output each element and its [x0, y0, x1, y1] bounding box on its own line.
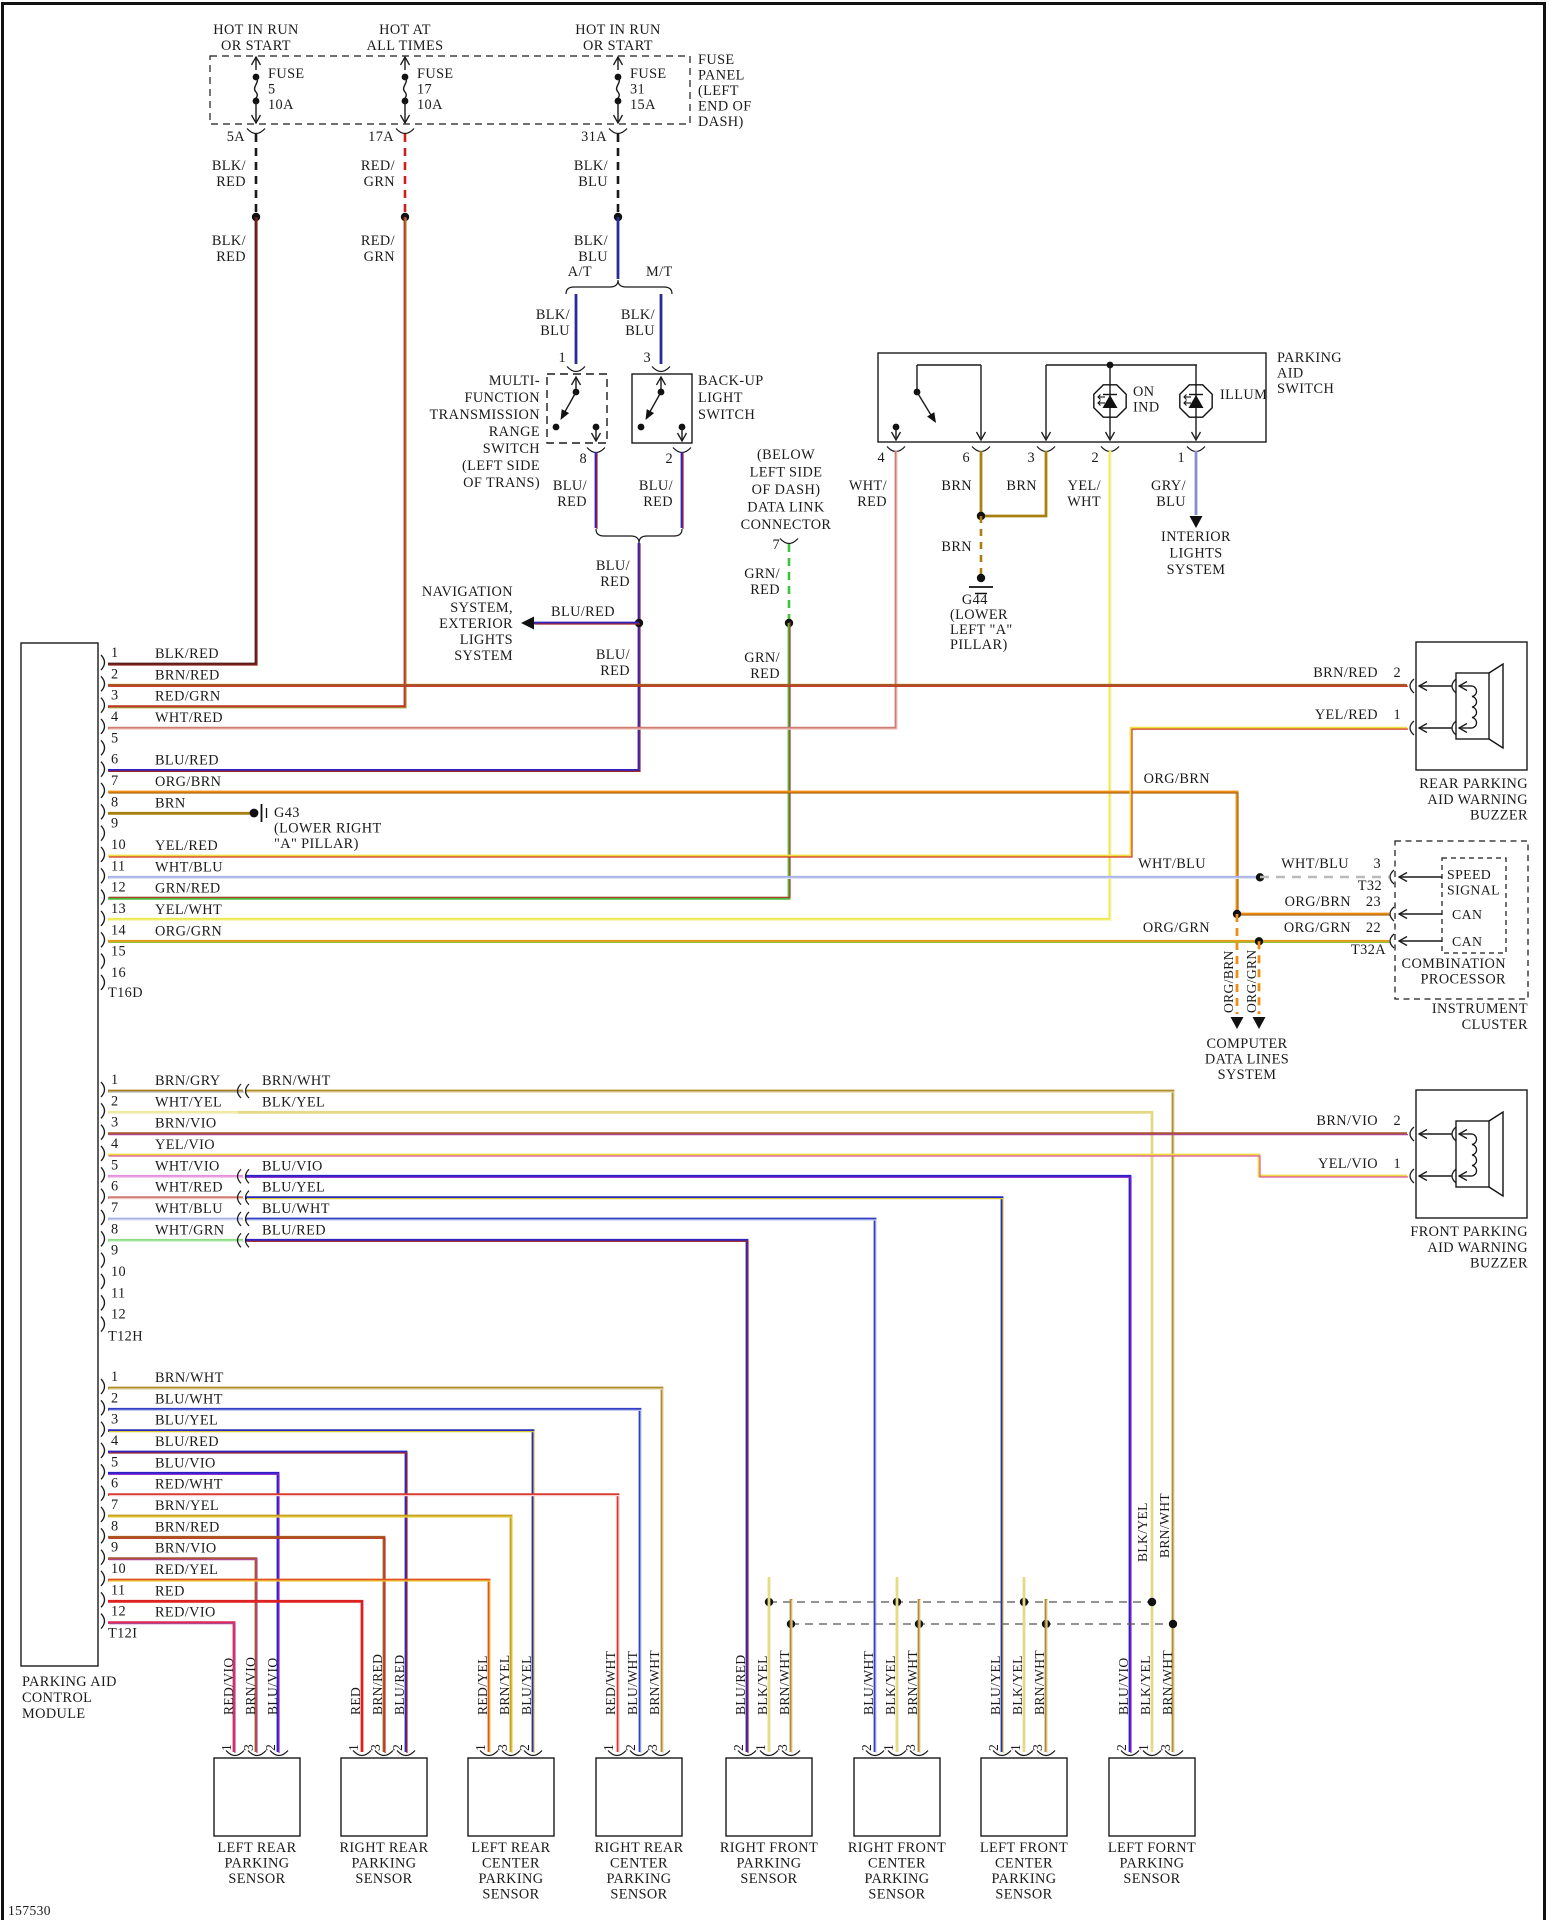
- pin 3 left rear center (BRN/YEL): [502, 1751, 520, 1756]
- pin 3 left fornt parking (BRN/WHT): [1165, 1751, 1183, 1756]
- svg-text:BLU: BLU: [578, 249, 608, 265]
- wire ORG/GRN dashed to computer data lines: [1258, 941, 1261, 1014]
- svg-text:SWITCH: SWITCH: [698, 407, 755, 423]
- pin 4 T12H: [101, 1146, 105, 1161]
- wire BRN/WHT bus drop at x=1046: [1045, 1599, 1048, 1752]
- svg-text:(BELOW: (BELOW: [757, 447, 815, 463]
- junction node GRN/RED: [785, 619, 793, 627]
- svg-text:BLK/YEL: BLK/YEL: [1138, 1655, 1153, 1715]
- svg-text:ORG/GRN: ORG/GRN: [1143, 920, 1210, 936]
- wire BRN/WHT bus drop at x=791: [790, 1599, 793, 1752]
- svg-text:YEL/VIO: YEL/VIO: [1318, 1156, 1378, 1172]
- svg-text:YEL/RED: YEL/RED: [155, 838, 218, 854]
- svg-text:BRN/YEL: BRN/YEL: [497, 1654, 512, 1715]
- svg-text:HOT IN RUN: HOT IN RUN: [575, 22, 661, 38]
- svg-text:ILLUM: ILLUM: [1220, 387, 1267, 403]
- svg-text:1: 1: [219, 1744, 234, 1751]
- fuse 31 15A: [614, 57, 667, 123]
- pin 2 left rear parking (BLU/VIO): [270, 1751, 288, 1756]
- left rear parking sensor box: [214, 1758, 300, 1836]
- svg-text:WHT/BLU: WHT/BLU: [155, 1201, 223, 1217]
- svg-text:BLK/YEL: BLK/YEL: [755, 1655, 770, 1715]
- svg-text:SWITCH: SWITCH: [483, 441, 540, 457]
- svg-text:WHT/GRN: WHT/GRN: [155, 1222, 225, 1238]
- svg-text:OF DASH): OF DASH): [752, 482, 821, 498]
- svg-text:2: 2: [731, 1744, 746, 1751]
- svg-text:10A: 10A: [417, 97, 443, 113]
- svg-text:INSTRUMENT: INSTRUMENT: [1432, 1001, 1528, 1017]
- svg-text:LEFT "A": LEFT "A": [950, 622, 1013, 638]
- svg-text:RED: RED: [348, 1687, 363, 1715]
- svg-text:6: 6: [111, 752, 119, 768]
- pin 1 left rear parking (RED/VIO): [226, 1751, 244, 1756]
- pin 6 T12I: [101, 1486, 105, 1501]
- svg-text:RIGHT FRONT: RIGHT FRONT: [848, 1840, 946, 1856]
- wire WHT/BLU dashed to instrument cluster pin3: [1260, 876, 1389, 878]
- svg-text:SYSTEM,: SYSTEM,: [450, 600, 513, 616]
- svg-text:BLU/WHT: BLU/WHT: [262, 1201, 330, 1217]
- svg-text:RIGHT REAR: RIGHT REAR: [594, 1840, 683, 1856]
- svg-text:4: 4: [111, 1136, 119, 1152]
- pin 4 T12I: [101, 1443, 105, 1458]
- wire BLK/YEL bus drop at x=769: [768, 1577, 771, 1752]
- svg-text:BLU/VIO: BLU/VIO: [1116, 1657, 1131, 1715]
- svg-text:10: 10: [111, 1264, 126, 1280]
- fuse 17 10A: [401, 57, 454, 123]
- wire RED/YEL T12I pin10 to sensor: [108, 1580, 489, 1752]
- svg-text:SENSOR: SENSOR: [610, 1887, 667, 1903]
- svg-text:3: 3: [1373, 856, 1381, 872]
- pin 16 T16D: [101, 975, 105, 990]
- wire BLU/WHT T12I pin2 to sensor: [108, 1409, 640, 1752]
- svg-text:CLUSTER: CLUSTER: [1462, 1017, 1528, 1033]
- svg-text:BLK/: BLK/: [574, 158, 608, 174]
- left rear center parking sensor box: [468, 1758, 554, 1836]
- wire BLK/BLU M/T branch: [660, 294, 663, 364]
- svg-text:(LEFT SIDE: (LEFT SIDE: [462, 458, 540, 474]
- svg-text:BRN/WHT: BRN/WHT: [647, 1650, 662, 1715]
- svg-text:MODULE: MODULE: [22, 1706, 86, 1722]
- svg-text:BRN/RED: BRN/RED: [370, 1654, 385, 1715]
- wire BLU/RED merged down to junction: [108, 543, 639, 770]
- svg-text:7: 7: [111, 1497, 119, 1513]
- svg-text:BLU/WHT: BLU/WHT: [625, 1650, 640, 1715]
- wire GRN/RED dashed from data link: [788, 544, 791, 622]
- svg-text:PARKING: PARKING: [864, 1871, 929, 1887]
- svg-text:LIGHTS: LIGHTS: [1169, 546, 1222, 562]
- svg-text:LEFT FRONT: LEFT FRONT: [980, 1840, 1068, 1856]
- pin 1 right rear center (RED/WHT): [608, 1751, 626, 1756]
- svg-text:GRN/RED: GRN/RED: [155, 881, 221, 897]
- svg-text:15: 15: [111, 944, 126, 960]
- pin 1 T12H: [101, 1082, 105, 1097]
- junction node ORG/BRN: [1233, 910, 1241, 918]
- parking aid control module box: [21, 643, 98, 1666]
- svg-text:9: 9: [111, 816, 119, 832]
- svg-text:RIGHT FRONT: RIGHT FRONT: [720, 1840, 818, 1856]
- svg-text:23: 23: [1366, 894, 1381, 910]
- svg-text:DATA LINK: DATA LINK: [747, 500, 825, 516]
- svg-text:BRN: BRN: [155, 795, 186, 811]
- svg-text:BLK/YEL: BLK/YEL: [262, 1094, 325, 1110]
- pin 8 T12I: [101, 1528, 105, 1543]
- svg-text:SENSOR: SENSOR: [482, 1887, 539, 1903]
- svg-text:BLK/: BLK/: [536, 307, 570, 323]
- svg-text:9: 9: [111, 1540, 119, 1556]
- wire WHT/GRN-BLU/RED T12H pin8 to right front sensor: [108, 1239, 243, 1242]
- wire BLU/RED T12I pin4 to sensor: [108, 1452, 406, 1752]
- wire BLU/RED from pin 8: [595, 452, 598, 528]
- svg-text:RED/: RED/: [361, 233, 395, 249]
- svg-text:16: 16: [111, 965, 126, 981]
- wire BRN dashed to ground G44: [980, 516, 983, 574]
- svg-text:8: 8: [579, 451, 587, 467]
- svg-text:CENTER: CENTER: [482, 1856, 540, 1872]
- svg-text:RED: RED: [557, 494, 587, 510]
- svg-text:5: 5: [111, 1454, 119, 1470]
- svg-text:2: 2: [1091, 450, 1099, 466]
- pin 2 left front center (BLU/YEL): [993, 1751, 1011, 1756]
- svg-text:M/T: M/T: [646, 264, 673, 280]
- wire RED/GRN fuse17 to T16D pin3: [108, 217, 405, 707]
- svg-text:BLU/: BLU/: [639, 478, 673, 494]
- svg-text:CONNECTOR: CONNECTOR: [741, 517, 832, 533]
- svg-text:BRN/WHT: BRN/WHT: [1160, 1650, 1175, 1715]
- svg-text:BRN/WHT: BRN/WHT: [155, 1370, 224, 1386]
- svg-text:7: 7: [111, 1200, 119, 1216]
- svg-text:WHT/YEL: WHT/YEL: [155, 1094, 222, 1110]
- svg-text:ORG/BRN: ORG/BRN: [1285, 894, 1351, 910]
- pin 8 T12H: [101, 1231, 105, 1246]
- svg-text:BLU/WHT: BLU/WHT: [861, 1650, 876, 1715]
- svg-text:DATA LINES: DATA LINES: [1205, 1052, 1289, 1068]
- svg-text:SYSTEM: SYSTEM: [454, 648, 513, 664]
- svg-text:ORG/GRN: ORG/GRN: [1244, 949, 1259, 1013]
- svg-text:INTERIOR: INTERIOR: [1161, 529, 1231, 545]
- svg-text:BLK/YEL: BLK/YEL: [1135, 1502, 1150, 1562]
- pin 6 T12H: [101, 1189, 105, 1204]
- svg-text:(LOWER RIGHT: (LOWER RIGHT: [274, 821, 382, 837]
- svg-text:ORG/BRN: ORG/BRN: [155, 774, 221, 790]
- svg-text:BLU/YEL: BLU/YEL: [988, 1655, 1003, 1715]
- svg-text:PARKING: PARKING: [478, 1871, 543, 1887]
- svg-text:BLU: BLU: [1156, 494, 1186, 510]
- svg-text:SIGNAL: SIGNAL: [1447, 883, 1500, 898]
- CAN input pin22: [1390, 934, 1394, 948]
- svg-text:14: 14: [111, 922, 126, 938]
- wire BRN/RED T16D pin2 to rear buzzer pin2: [108, 684, 1407, 687]
- pin 10 T16D: [101, 847, 105, 862]
- svg-text:BRN/WHT: BRN/WHT: [777, 1650, 792, 1715]
- svg-text:BRN/WHT: BRN/WHT: [905, 1650, 920, 1715]
- right front parking sensor box: [726, 1758, 812, 1836]
- svg-text:(LOWER: (LOWER: [950, 607, 1008, 623]
- svg-text:WHT/BLU: WHT/BLU: [1138, 856, 1206, 872]
- wire RED/WHT T12I pin6 to sensor: [108, 1495, 618, 1752]
- svg-text:2: 2: [665, 451, 673, 467]
- svg-text:BUZZER: BUZZER: [1470, 808, 1528, 824]
- pin 2 right front parking (BLU/RED): [738, 1751, 756, 1756]
- svg-text:ALL TIMES: ALL TIMES: [366, 38, 443, 54]
- pin 3 right rear center (BRN/WHT): [652, 1751, 670, 1756]
- svg-text:10: 10: [111, 837, 126, 853]
- wire BRN/RED T12I pin8 to sensor: [108, 1537, 384, 1752]
- svg-text:RED: RED: [857, 494, 887, 510]
- svg-text:WHT: WHT: [1067, 494, 1101, 510]
- svg-text:LEFT REAR: LEFT REAR: [217, 1840, 296, 1856]
- svg-text:RED/: RED/: [361, 158, 395, 174]
- svg-text:BLU/YEL: BLU/YEL: [155, 1413, 218, 1429]
- svg-text:2: 2: [111, 1390, 119, 1406]
- svg-text:1: 1: [111, 1369, 119, 1385]
- svg-text:BLU/: BLU/: [596, 558, 630, 574]
- svg-text:AID WARNING: AID WARNING: [1427, 792, 1528, 808]
- svg-text:BLK/YEL: BLK/YEL: [1010, 1655, 1025, 1715]
- pin 14 T16D: [101, 932, 105, 947]
- svg-text:BRN: BRN: [1006, 478, 1037, 494]
- svg-text:2: 2: [111, 666, 119, 682]
- svg-text:7: 7: [111, 773, 119, 789]
- multi-function transmission range switch: [547, 374, 607, 443]
- svg-text:SENSOR: SENSOR: [355, 1871, 412, 1887]
- pin 3 right front center (BRN/WHT): [910, 1751, 928, 1756]
- ground G43: [250, 804, 267, 822]
- A/T M/T split brace: [566, 280, 672, 294]
- left fornt parking sensor box: [1109, 1758, 1195, 1836]
- pin 1 T16D: [101, 655, 105, 670]
- svg-text:BLK/: BLK/: [212, 233, 246, 249]
- pin 3 left rear parking (BRN/VIO): [248, 1751, 266, 1756]
- wire BLU/YEL T12I pin3 to sensor: [108, 1431, 533, 1752]
- svg-text:WHT/RED: WHT/RED: [155, 1180, 223, 1196]
- wire BRN T16D pin8 to ground G43: [108, 812, 250, 815]
- pin 2 T12I: [101, 1400, 105, 1415]
- svg-text:WHT/RED: WHT/RED: [155, 710, 223, 726]
- speed signal input pin3 T32: [1390, 870, 1394, 884]
- svg-text:BACK-UP: BACK-UP: [698, 373, 764, 389]
- svg-text:RED: RED: [750, 582, 780, 598]
- svg-text:T12H: T12H: [108, 1329, 143, 1345]
- svg-text:BLU/RED: BLU/RED: [733, 1654, 748, 1715]
- pin 1 left fornt parking (BLK/YEL): [1143, 1751, 1161, 1756]
- wire BLU/RED from pin 2: [681, 452, 684, 528]
- svg-text:PARKING: PARKING: [991, 1871, 1056, 1887]
- svg-text:12: 12: [111, 1604, 126, 1620]
- svg-text:WHT/: WHT/: [849, 478, 887, 494]
- svg-text:RED/VIO: RED/VIO: [221, 1657, 236, 1715]
- svg-text:NAVIGATION: NAVIGATION: [422, 584, 513, 600]
- svg-text:BLU/RED: BLU/RED: [155, 1434, 219, 1450]
- wire ORG/BRN dashed to computer data lines: [1236, 914, 1239, 1014]
- LED ON IND indicator: [1094, 365, 1126, 440]
- wire BRN/VIO T12H pin3 to front buzzer pin2: [108, 1132, 1407, 1135]
- svg-text:PARKING: PARKING: [351, 1856, 416, 1872]
- svg-text:BLU/RED: BLU/RED: [392, 1654, 407, 1715]
- back-up light switch: [632, 374, 692, 443]
- pin 6 T16D: [101, 762, 105, 777]
- pin 2 T16D: [101, 676, 105, 691]
- pin 3 left front center (BRN/WHT): [1037, 1751, 1055, 1756]
- svg-text:PARKING AID: PARKING AID: [22, 1674, 117, 1690]
- svg-text:3: 3: [111, 688, 119, 704]
- svg-text:TRANSMISSION: TRANSMISSION: [430, 407, 540, 423]
- svg-text:T32: T32: [1358, 878, 1382, 894]
- wire BRN/GRY-BRN/WHT T12H pin1 to BRN/WHT bus: [108, 1090, 243, 1093]
- wire YEL/WHT switch pin2 to T16D pin13: [108, 451, 1110, 919]
- right rear parking sensor box: [341, 1758, 427, 1836]
- pin 11 T16D: [101, 868, 105, 883]
- svg-text:9: 9: [111, 1243, 119, 1259]
- wire GRN/RED down to T16D pin12: [108, 623, 789, 898]
- wire BLK/BLU fuse31 down to A/T-M/T split: [617, 217, 620, 279]
- splice node ORG/GRN: [1255, 937, 1263, 945]
- wire BRN switch pin6 to splice: [980, 451, 983, 515]
- svg-text:LEFT FORNT: LEFT FORNT: [1108, 1840, 1196, 1856]
- svg-text:3: 3: [1030, 1744, 1045, 1751]
- wire BLK/RED fuse5 to T16D pin1: [108, 217, 256, 664]
- svg-text:HOT AT: HOT AT: [379, 22, 431, 38]
- svg-text:3: 3: [1027, 450, 1035, 466]
- pin 2 right front center (BLU/WHT): [866, 1751, 884, 1756]
- svg-text:FUSE: FUSE: [630, 66, 667, 82]
- pin 10 T12I: [101, 1571, 105, 1586]
- svg-text:BLU/RED: BLU/RED: [551, 604, 615, 620]
- svg-text:REAR PARKING: REAR PARKING: [1419, 776, 1528, 792]
- wire WHT/RED switch pin4 to T16D pin4: [108, 451, 896, 728]
- svg-text:FUNCTION: FUNCTION: [465, 390, 540, 406]
- svg-text:END OF: END OF: [698, 99, 752, 115]
- svg-text:2: 2: [263, 1744, 278, 1751]
- wire BLK/YEL bus drop at x=1024: [1023, 1577, 1026, 1752]
- svg-text:BRN/YEL: BRN/YEL: [155, 1498, 219, 1514]
- pin 13 T16D: [101, 911, 105, 926]
- parking aid switch box: [878, 353, 1266, 442]
- splice node on BLK/RED feed: [252, 213, 260, 221]
- svg-text:YEL/WHT: YEL/WHT: [155, 902, 222, 918]
- svg-text:BRN: BRN: [941, 478, 972, 494]
- svg-text:PARKING: PARKING: [606, 1871, 671, 1887]
- svg-text:8: 8: [111, 794, 119, 810]
- svg-text:SYSTEM: SYSTEM: [1167, 562, 1226, 578]
- svg-text:SENSOR: SENSOR: [1123, 1871, 1180, 1887]
- svg-text:2: 2: [111, 1093, 119, 1109]
- svg-text:1: 1: [1136, 1744, 1151, 1751]
- svg-text:RED/VIO: RED/VIO: [155, 1605, 216, 1621]
- svg-text:17A: 17A: [368, 129, 394, 145]
- wire BRN switch pin3 to splice: [981, 451, 1046, 516]
- svg-text:FUSE: FUSE: [698, 52, 735, 68]
- pin 8 T16D: [101, 804, 105, 819]
- svg-text:RIGHT REAR: RIGHT REAR: [339, 1840, 428, 1856]
- pin 1 right front center (BLK/YEL): [888, 1751, 906, 1756]
- svg-text:3: 3: [111, 1115, 119, 1131]
- svg-text:BLU/RED: BLU/RED: [262, 1222, 326, 1238]
- svg-text:PARKING: PARKING: [1119, 1856, 1184, 1872]
- ground G44: [969, 574, 993, 594]
- wire BLK/BLU A/T branch: [575, 294, 578, 364]
- instrument cluster outer dashed box: [1395, 841, 1528, 999]
- svg-text:COMPUTER: COMPUTER: [1206, 1036, 1287, 1052]
- svg-text:SENSOR: SENSOR: [995, 1887, 1052, 1903]
- svg-text:OF TRANS): OF TRANS): [463, 475, 540, 491]
- wire BRN/WHT bus drop at x=919: [918, 1599, 921, 1752]
- svg-text:BLK/: BLK/: [574, 233, 608, 249]
- pin 7 T12H: [101, 1210, 105, 1225]
- svg-text:4: 4: [877, 450, 885, 466]
- svg-text:RED: RED: [600, 574, 630, 590]
- wire WHT/VIO-BLU/VIO T12H pin5 to left front sensor: [108, 1175, 243, 1178]
- pin 2 right rear parking (BLU/RED): [397, 1751, 415, 1756]
- svg-text:BLU/VIO: BLU/VIO: [265, 1657, 280, 1715]
- svg-text:1: 1: [1393, 1156, 1401, 1172]
- svg-text:4: 4: [111, 1433, 119, 1449]
- splice node on RED/GRN feed: [401, 213, 409, 221]
- svg-text:GRN/: GRN/: [744, 566, 780, 582]
- svg-text:AID: AID: [1277, 366, 1304, 382]
- svg-text:BRN/WHT: BRN/WHT: [262, 1073, 331, 1089]
- svg-text:BLU/: BLU/: [553, 478, 587, 494]
- svg-text:15A: 15A: [630, 97, 656, 113]
- wire WHT/BLU-BLU/WHT T12H pin7 to right front center sensor: [108, 1218, 243, 1221]
- svg-text:LEFT REAR: LEFT REAR: [471, 1840, 550, 1856]
- svg-text:BRN/VIO: BRN/VIO: [1316, 1113, 1378, 1129]
- svg-text:3: 3: [495, 1744, 510, 1751]
- svg-text:1: 1: [881, 1744, 896, 1751]
- wire GRY/BLU switch pin1 to interior lights: [1195, 451, 1198, 515]
- svg-text:BLU/VIO: BLU/VIO: [262, 1158, 323, 1174]
- right rear center parking sensor box: [596, 1758, 682, 1836]
- svg-text:BLU: BLU: [540, 323, 570, 339]
- svg-text:FUSE: FUSE: [268, 66, 305, 82]
- pin 5 T16D: [101, 740, 105, 755]
- svg-text:6: 6: [111, 1179, 119, 1195]
- svg-text:RED: RED: [216, 249, 246, 265]
- svg-text:17: 17: [417, 82, 432, 98]
- svg-text:1: 1: [601, 1744, 616, 1751]
- parking aid switch LED rail: [1042, 362, 1198, 440]
- svg-text:BRN/VIO: BRN/VIO: [155, 1116, 217, 1132]
- parking aid switch internal contacts: [892, 365, 986, 440]
- svg-text:BRN/RED: BRN/RED: [155, 667, 220, 683]
- svg-text:BLU/RED: BLU/RED: [155, 753, 219, 769]
- svg-text:BRN/VIO: BRN/VIO: [155, 1541, 217, 1557]
- wire BLK/RED dashed segment from fuse 5: [255, 134, 258, 214]
- svg-text:3: 3: [775, 1744, 790, 1751]
- svg-text:YEL/VIO: YEL/VIO: [155, 1137, 215, 1153]
- svg-text:COMBINATION: COMBINATION: [1402, 956, 1506, 972]
- front parking aid warning buzzer box: [1410, 1090, 1527, 1218]
- svg-text:22: 22: [1366, 920, 1381, 936]
- svg-text:1: 1: [558, 350, 566, 366]
- left front center parking sensor box: [981, 1758, 1067, 1836]
- svg-text:BLU/YEL: BLU/YEL: [519, 1655, 534, 1715]
- wire BRN/YEL T12I pin7 to sensor: [108, 1516, 511, 1752]
- svg-text:OR START: OR START: [583, 38, 653, 54]
- svg-text:7: 7: [772, 537, 780, 553]
- svg-text:157530: 157530: [8, 1903, 51, 1918]
- svg-text:1: 1: [1008, 1744, 1023, 1751]
- svg-text:T12I: T12I: [108, 1626, 137, 1642]
- splice node BRN: [977, 512, 985, 520]
- svg-text:1: 1: [1393, 707, 1401, 723]
- wire BRN/VIO T12I pin9 to sensor: [108, 1559, 256, 1752]
- svg-text:5: 5: [111, 730, 119, 746]
- svg-text:PARKING: PARKING: [1277, 350, 1342, 366]
- svg-text:RED/YEL: RED/YEL: [155, 1562, 218, 1578]
- svg-text:RED: RED: [216, 174, 246, 190]
- svg-text:BRN: BRN: [941, 539, 972, 555]
- svg-text:8: 8: [111, 1221, 119, 1237]
